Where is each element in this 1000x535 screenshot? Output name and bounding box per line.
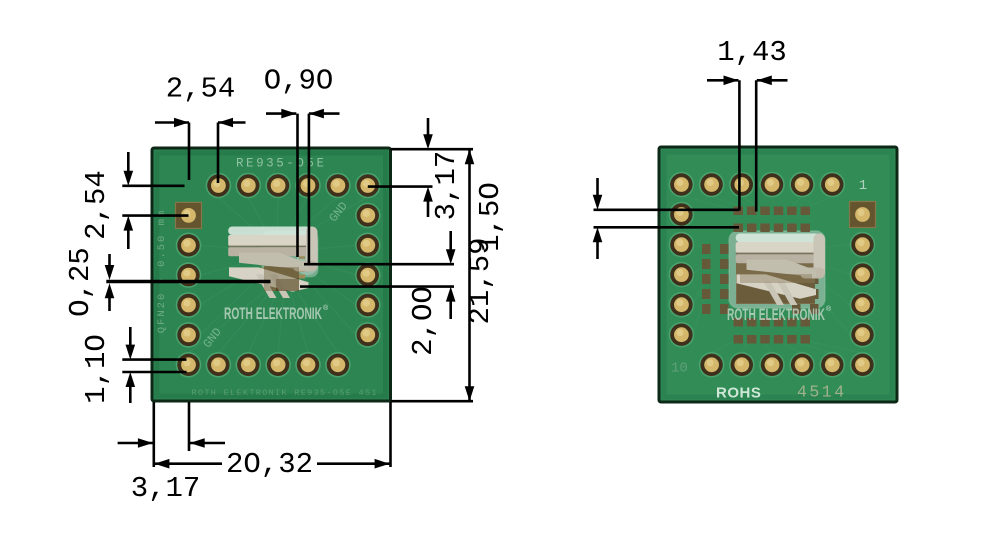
svg-text:O,25: O,25 bbox=[64, 247, 97, 317]
svg-text:ROTH ELEKTRONIK: ROTH ELEKTRONIK bbox=[224, 305, 322, 323]
svg-text:ROHS: ROHS bbox=[716, 385, 761, 402]
right board QFN footprint with fanout pads bbox=[702, 207, 825, 344]
dimension 0,25 left side (trace width leader) bbox=[64, 247, 271, 317]
left PCB board substrate bbox=[152, 148, 391, 401]
left board exposed pad shadow bbox=[264, 267, 299, 291]
dimension 21,59 board height with 1,50 label bbox=[391, 149, 508, 401]
svg-text:QFN20 - 0.50 mm: QFN20 - 0.50 mm bbox=[156, 209, 168, 334]
left board pin1 square pad bbox=[176, 202, 202, 228]
svg-text:4514: 4514 bbox=[797, 383, 847, 402]
svg-text:ROTH ELEKTRONIK: ROTH ELEKTRONIK bbox=[727, 306, 825, 324]
svg-text:RE935-O5E: RE935-O5E bbox=[236, 157, 324, 171]
svg-text:2O,32: 2O,32 bbox=[226, 448, 313, 481]
svg-text:®: ® bbox=[826, 305, 832, 313]
svg-text:10: 10 bbox=[671, 361, 688, 377]
dimension 2,54 left side (pin1 offset) bbox=[80, 152, 189, 249]
left board right pad column bbox=[355, 203, 381, 348]
svg-text:3,17: 3,17 bbox=[131, 472, 201, 505]
left board top pad row (pins) bbox=[206, 173, 381, 199]
right board left pad column bbox=[669, 202, 695, 348]
svg-text:1,1O: 1,1O bbox=[80, 334, 113, 404]
svg-text:ROTH ELEKTRONIK RE935-O5E 451: ROTH ELEKTRONIK RE935-O5E 451 bbox=[192, 388, 377, 398]
dimension 0,90 top, arrows and extension lines bbox=[264, 65, 340, 264]
svg-text:O,9O: O,9O bbox=[264, 65, 334, 98]
right board bottom pad row bbox=[699, 352, 876, 378]
left board left pad column bbox=[176, 233, 202, 348]
right board silkscreen ROTH ELEKTRONIK bbox=[727, 305, 832, 324]
left board Roth logo bbox=[228, 227, 317, 299]
svg-text:2,OO: 2,OO bbox=[407, 286, 440, 356]
left board copper traces bbox=[189, 197, 368, 353]
svg-text:3,17: 3,17 bbox=[430, 151, 463, 221]
svg-text:1,5O: 1,5O bbox=[474, 182, 507, 252]
dimension 1,43 top of right board bbox=[707, 36, 788, 212]
left board QFN20 footprint bbox=[259, 231, 318, 291]
right board right pad column bbox=[850, 232, 876, 348]
dimension 2,54 top (pitch), arrows and extension lines bbox=[155, 73, 246, 184]
right board pin1 square pad (top right) bbox=[850, 202, 876, 228]
left board bottom pad row bbox=[176, 352, 351, 378]
svg-text:1,43: 1,43 bbox=[717, 36, 787, 69]
right board exposed pad shadow bbox=[740, 274, 812, 283]
dimension 3,17 right side (top edge to pin row) bbox=[368, 118, 473, 220]
dimension 2,00 right side (exposed pad) bbox=[300, 231, 456, 356]
svg-text:1: 1 bbox=[859, 178, 867, 194]
right board top pad row bbox=[669, 172, 845, 198]
svg-text:®: ® bbox=[323, 304, 329, 312]
right board copper traces bbox=[681, 196, 862, 353]
right PCB board substrate bbox=[659, 147, 897, 402]
svg-text:2,54: 2,54 bbox=[80, 170, 113, 240]
dimension 3,17 bottom left (edge to first pad) bbox=[118, 402, 225, 505]
right board left side leader lines with arrows (1,43 vertical) bbox=[593, 178, 740, 259]
right board Roth logo bbox=[736, 234, 825, 306]
svg-text:2,54: 2,54 bbox=[166, 73, 236, 106]
dimension 20,32 board width bbox=[154, 402, 390, 481]
dimension 1,10 left side (pad diameter) bbox=[80, 327, 187, 404]
left board silkscreen ROTH ELEKTRONIK bbox=[224, 304, 329, 323]
